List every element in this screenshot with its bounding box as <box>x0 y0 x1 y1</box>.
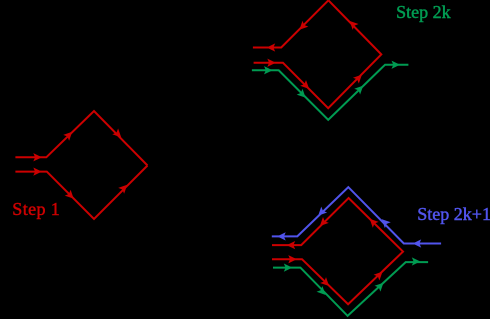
arrow: step2k+1 red bottom-right edge up-right <box>375 270 384 279</box>
wire: step2k+1 green pass-through path <box>273 262 428 316</box>
arrow: step1 lower-left edge down-right <box>66 191 75 200</box>
arrow: step2k red top-left edge down-left <box>298 22 307 31</box>
svg-text:Step 2k: Step 2k <box>396 2 451 22</box>
wire: step2k+1 red loop (entry rail, bottom, right, apex, exit rail) <box>272 198 403 304</box>
arrow: step2k+1 green bottom-right diag up-right <box>376 281 385 290</box>
arrow: step2k+1 blue top-left edge down-left <box>317 208 326 217</box>
arrow: step2k+1 red top-right edge up-left <box>368 217 377 226</box>
arrow: step1 lower rail right <box>34 168 41 174</box>
arrow: step2k+1 blue left rail left <box>278 233 285 239</box>
svg-text:Step 1: Step 1 <box>12 199 60 219</box>
arrow: step2k red entry rail right <box>268 60 275 66</box>
arrow: step2k+1 red exit rail left <box>288 242 295 248</box>
wire: step2k green pass-through path <box>252 65 409 120</box>
wire: step2k+1 blue over-the-top path <box>272 187 441 243</box>
arrow: step2k green bottom-right diag up-right <box>356 84 365 93</box>
arrow: step2k+1 red top-left edge down-left <box>318 218 327 227</box>
arrow: step2k+1 green bottom-left diag down-right <box>318 287 327 296</box>
wire: step1 upper rail + upper-left edge + upper-right edge (red) <box>15 111 147 166</box>
arrow: step2k red exit rail left <box>268 44 275 50</box>
arrow: step2k+1 blue top-right edge up-left <box>380 218 389 227</box>
arrow: step2k green bottom-left diag down-right <box>298 90 307 99</box>
arrow: step2k+1 red entry rail right <box>289 256 296 262</box>
arrow: step2k red top-right edge up-left <box>348 19 357 28</box>
arrow: step2k green rail right <box>265 67 272 73</box>
arrow: step1 upper-right edge down-right <box>114 130 123 139</box>
arrow: step1 lower-right edge up-right <box>120 183 129 192</box>
wire: step2k red entry rail + bottom-left + bottom-right + top-right edges <box>254 0 382 108</box>
arrow: step2k red bottom-left edge down-right <box>301 81 310 90</box>
arrow: step2k+1 red bottom-left edge down-right <box>321 278 330 287</box>
wire: step1 lower rail + lower-left edge + lower-right edge (red) <box>15 166 147 220</box>
arrow: step2k red bottom-right edge up-right <box>354 73 363 82</box>
arrow: step2k green exit right <box>392 61 399 67</box>
arrow: step2k+1 green rail right <box>285 264 292 270</box>
wire: step2k red exit rail + top-left edge <box>253 0 329 47</box>
arrow: step2k+1 blue right horizontal left <box>414 240 421 246</box>
arrow: step1 upper-left edge up-right <box>65 130 74 139</box>
arrow: step2k+1 green exit right <box>413 258 420 264</box>
arrow: step1 upper rail right <box>34 154 41 160</box>
svg-text:Step 2k+1: Step 2k+1 <box>417 204 490 224</box>
